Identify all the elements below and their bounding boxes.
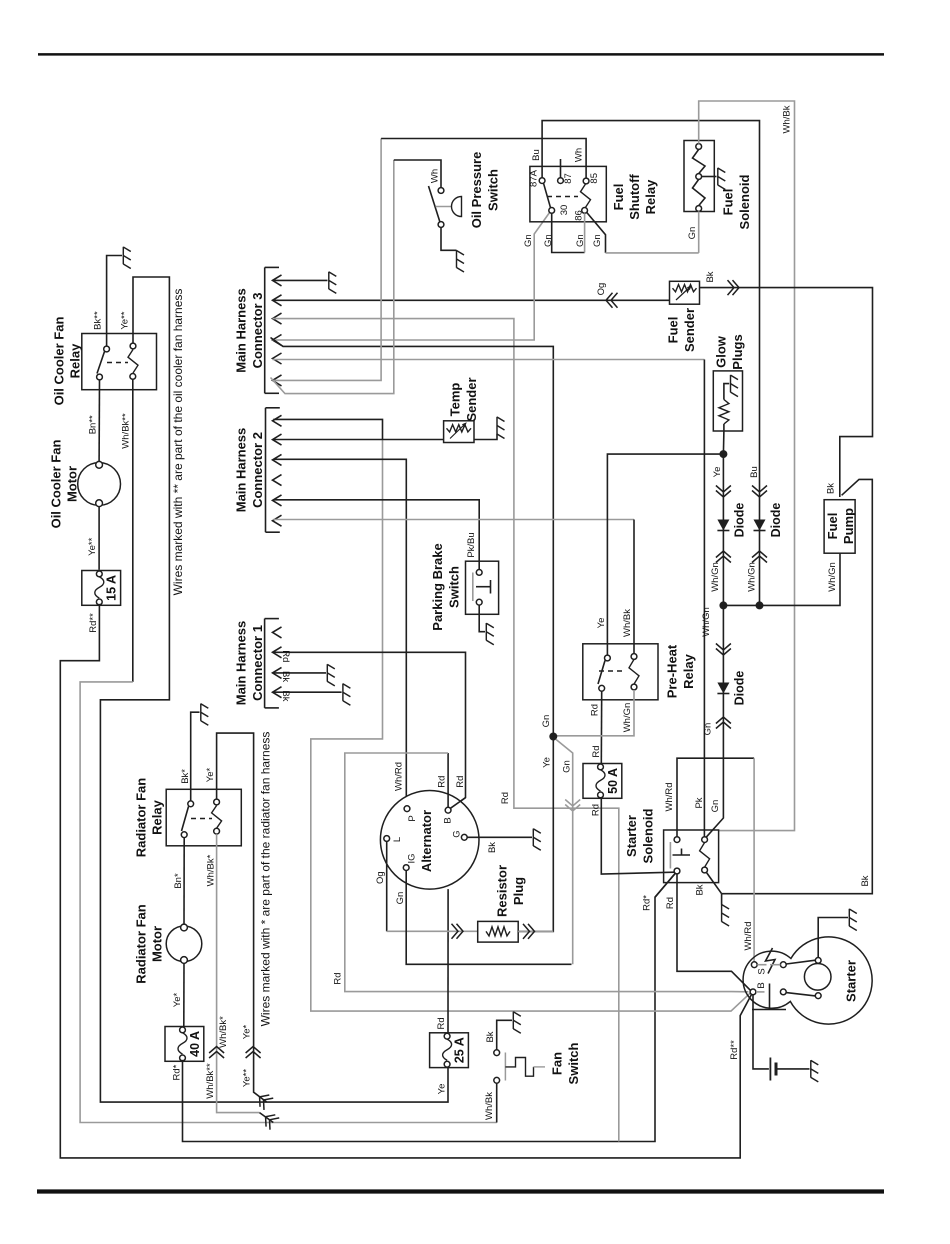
svg-text:Wires marked with ** are part: Wires marked with ** are part of the oil… bbox=[171, 289, 185, 596]
relay K2 pin Ye* bbox=[214, 799, 220, 805]
svg-text:Glow: Glow bbox=[714, 335, 729, 368]
svg-text:Gn: Gn bbox=[523, 234, 534, 247]
chevron Og bbox=[606, 293, 618, 308]
motor M2 bottom terminal bbox=[181, 957, 188, 964]
svg-text:Rd: Rd bbox=[665, 897, 676, 909]
svg-text:Rd: Rd bbox=[590, 804, 601, 816]
diode D2 bbox=[754, 520, 766, 531]
wire Rd** fuse to starter B bus bbox=[60, 604, 751, 1158]
chevron Bu chain low bbox=[752, 551, 767, 563]
wire battery to ground bbox=[778, 1068, 810, 1070]
svg-text:Wh/Gn: Wh/Gn bbox=[622, 703, 633, 733]
svg-text:Wh/Bk**: Wh/Bk** bbox=[205, 1063, 216, 1099]
svg-text:Rd: Rd bbox=[589, 704, 600, 716]
label Bk BR bbox=[694, 884, 705, 895]
relay K4 pin WhBk bbox=[631, 654, 637, 660]
wire J2-2 to temp sender bbox=[273, 439, 443, 441]
switch oil pressure bottom pin bbox=[438, 222, 444, 228]
relay K1 pin Ye** bbox=[130, 343, 136, 349]
svg-text:Wh: Wh bbox=[429, 169, 440, 183]
node junction glow bbox=[719, 450, 727, 458]
wire J1-2 Rd to alternator B bbox=[273, 652, 466, 808]
resistor plug element bbox=[486, 927, 510, 936]
svg-text:G: G bbox=[451, 830, 462, 837]
label Rd* bbox=[171, 1064, 182, 1080]
wire alt G Bk bbox=[467, 836, 532, 838]
wire Wh/Bk** relay to bus bbox=[80, 379, 497, 1122]
label Gn ss bbox=[710, 800, 721, 813]
label Gn D3 bbox=[702, 723, 713, 736]
ground parking brake bbox=[486, 623, 494, 645]
relay K2 Radiator Fan Relay box bbox=[166, 789, 241, 846]
wire Ye** motor to fuse bbox=[98, 507, 100, 570]
connector J3 title bbox=[234, 288, 265, 373]
svg-text:Relay: Relay bbox=[68, 343, 83, 378]
ground fuel solenoid bbox=[718, 168, 726, 190]
wire Bk** to ground bbox=[107, 256, 122, 347]
svg-text:Resistor: Resistor bbox=[495, 865, 510, 917]
svg-text:Plugs: Plugs bbox=[730, 334, 745, 369]
label Gn junction bbox=[541, 715, 552, 728]
solenoid pin bottom bbox=[696, 206, 702, 212]
wire Gn diagonal bbox=[556, 739, 573, 964]
svg-text:Ye**: Ye** bbox=[120, 311, 131, 329]
svg-text:Ye: Ye bbox=[712, 467, 723, 478]
wire Ye** long feed bbox=[100, 277, 448, 1102]
note radiator fan harness bbox=[259, 732, 273, 1027]
label P bbox=[407, 815, 418, 821]
starter contact 2 bbox=[780, 989, 786, 995]
ground glow plugs bbox=[731, 375, 739, 397]
label Bk right bbox=[860, 875, 871, 886]
svg-text:Gn: Gn bbox=[687, 227, 698, 240]
svg-text:Wh/Bk: Wh/Bk bbox=[622, 609, 633, 637]
motor M2 Radiator Fan Motor bbox=[166, 926, 202, 962]
wire SS WhRd to starter S bbox=[677, 758, 754, 962]
wire Rd* fuse to solenoid bus bbox=[183, 873, 676, 1141]
battery short plate bbox=[775, 1063, 778, 1076]
solenoid coil lower bbox=[693, 179, 706, 205]
svg-text:Wh/Rd: Wh/Rd bbox=[394, 762, 405, 791]
page top rule bbox=[38, 53, 884, 56]
svg-text:Fan: Fan bbox=[550, 1052, 565, 1075]
svg-text:Solenoid: Solenoid bbox=[641, 808, 656, 863]
resistor plug box bbox=[478, 921, 519, 942]
svg-text:Wh/Bk*: Wh/Bk* bbox=[218, 1016, 229, 1048]
label WhGn K4 bbox=[622, 703, 633, 733]
svg-text:15 A: 15 A bbox=[105, 575, 119, 601]
wire glow to junction bbox=[722, 431, 725, 454]
label IG bbox=[406, 853, 417, 863]
starter solenoid plunger bbox=[673, 849, 691, 856]
svg-text:Switch: Switch bbox=[447, 566, 462, 608]
svg-text:Ye*: Ye* bbox=[241, 1024, 252, 1039]
svg-text:Main Harness: Main Harness bbox=[234, 428, 249, 513]
svg-text:50 A: 50 A bbox=[606, 768, 620, 794]
label Rd* SS bbox=[641, 895, 652, 911]
relay K1 coil bbox=[128, 350, 138, 374]
starter bar B bbox=[752, 984, 786, 1010]
wire J2-5 PkBu to parking brake bbox=[273, 500, 479, 570]
connector J1 title bbox=[234, 621, 265, 706]
label Bk J1-4 bbox=[280, 690, 291, 701]
glow plugs element bbox=[719, 400, 729, 425]
label WhRd starter bbox=[743, 921, 754, 950]
chevron WhBk diag bbox=[261, 1111, 279, 1130]
chevron Ye splice bbox=[246, 1047, 261, 1059]
svg-text:Gn: Gn bbox=[702, 723, 713, 736]
label Og alt bbox=[375, 871, 386, 884]
svg-text:L: L bbox=[392, 837, 403, 842]
chevron Gn chain bbox=[716, 644, 731, 656]
svg-text:Ye: Ye bbox=[596, 618, 607, 629]
svg-text:Rd: Rd bbox=[280, 650, 291, 662]
svg-text:P: P bbox=[407, 815, 418, 821]
connector J1 pin4 bbox=[273, 687, 282, 698]
svg-text:Gn: Gn bbox=[710, 800, 721, 813]
label 86 bbox=[573, 210, 584, 221]
svg-text:Bn*: Bn* bbox=[173, 873, 184, 889]
svg-text:Diode: Diode bbox=[732, 671, 746, 706]
svg-text:Gn: Gn bbox=[541, 715, 552, 728]
connector J1 bracket bbox=[265, 619, 279, 708]
relay K4 dashed link bbox=[599, 670, 624, 672]
svg-text:Pk: Pk bbox=[694, 797, 705, 808]
wire solenoid bottom Gn bbox=[698, 211, 700, 253]
label Diode D2 bbox=[769, 503, 783, 538]
wire J2-1 cont to starter B bbox=[311, 440, 751, 1012]
svg-text:Bk: Bk bbox=[280, 671, 291, 682]
relay starter solenoid box bbox=[664, 830, 719, 883]
svg-text:Rd*: Rd* bbox=[171, 1064, 182, 1080]
svg-text:Radiator Fan: Radiator Fan bbox=[134, 904, 149, 984]
svg-text:Bu: Bu bbox=[531, 149, 542, 161]
svg-text:Rd: Rd bbox=[436, 776, 447, 788]
wire Bn* relay to motor bbox=[183, 838, 185, 925]
connector J3 pin6 double bbox=[273, 375, 282, 386]
starter pin S bbox=[751, 962, 757, 968]
starter motor top bbox=[815, 958, 821, 964]
wire 30 loop bbox=[552, 213, 585, 252]
label Ye** bbox=[120, 311, 131, 329]
alternator pin B bbox=[445, 807, 451, 813]
svg-text:Diode: Diode bbox=[732, 503, 746, 538]
svg-text:Starter: Starter bbox=[844, 960, 859, 1002]
wire J3-3 Rd bbox=[273, 319, 619, 1142]
starter motor circle bbox=[804, 964, 831, 991]
svg-text:Wh/Gn: Wh/Gn bbox=[701, 607, 712, 637]
label Ye* relay bbox=[205, 767, 216, 782]
switch oil pressure dome bbox=[436, 197, 462, 217]
label G bbox=[451, 830, 462, 837]
relay K2 pin Wh/Bk* bbox=[214, 828, 220, 834]
svg-text:Solenoid: Solenoid bbox=[737, 174, 752, 229]
chevron Bk sender bbox=[728, 280, 740, 295]
label Bk** bbox=[93, 311, 104, 330]
relay K2 pin Bn* bbox=[181, 832, 187, 838]
page bottom rule bbox=[37, 1189, 884, 1193]
label Wh/Bk** bbox=[120, 413, 131, 449]
wire alt B Rd loop gray bbox=[345, 753, 749, 992]
wire fuel sender Bk to pump bbox=[700, 288, 873, 497]
label Starter bbox=[844, 960, 859, 1002]
diode D1 bbox=[717, 520, 729, 531]
svg-text:Gn: Gn bbox=[592, 234, 603, 247]
connector J2 pin1 bbox=[273, 415, 282, 426]
svg-text:Wh/Bk: Wh/Bk bbox=[781, 105, 792, 133]
label Bn* bbox=[173, 873, 184, 889]
wire J3-6a Wh to relay85 bbox=[273, 139, 587, 381]
label Og bbox=[596, 283, 607, 296]
svg-text:Oil Cooler Fan: Oil Cooler Fan bbox=[49, 440, 64, 529]
wire J2-6 WhBk to preheat relay bbox=[273, 520, 634, 654]
relay K3 switch arm bbox=[544, 183, 551, 208]
ground oil cooler relay bbox=[123, 247, 131, 269]
ground J3-1 bbox=[329, 272, 337, 294]
ground temp sender bbox=[497, 417, 505, 439]
relay K3 Fuel Shutoff Relay box bbox=[530, 166, 606, 221]
fuse F2 40 A bbox=[165, 1027, 204, 1062]
note oil cooler fan harness bbox=[171, 289, 185, 596]
wire J1-3 Bk ground bbox=[273, 672, 327, 674]
wire Ye diode chain bbox=[722, 454, 724, 605]
label Bk pump top bbox=[826, 483, 837, 494]
label B bbox=[442, 817, 453, 823]
fuse F3 50 A bbox=[583, 764, 622, 799]
svg-text:Wh: Wh bbox=[574, 148, 585, 162]
relay K4 pin WhGn bbox=[631, 684, 637, 690]
svg-text:Wh/Gn: Wh/Gn bbox=[827, 562, 838, 592]
label Wh/Bk right bbox=[781, 105, 792, 133]
label Bk* bbox=[180, 769, 191, 784]
ground battery bbox=[811, 1060, 819, 1082]
wire resistor right bbox=[518, 930, 553, 932]
svg-text:Pk/Bu: Pk/Bu bbox=[466, 532, 477, 557]
ground starter solenoid Bk bbox=[722, 904, 730, 926]
relay K3 coil bbox=[581, 184, 591, 207]
starter motor bottom bbox=[815, 993, 821, 999]
svg-text:Bk*: Bk* bbox=[180, 769, 191, 784]
svg-text:Wh/Gn: Wh/Gn bbox=[746, 562, 757, 592]
sensor fuel sender arrow bbox=[676, 285, 692, 300]
svg-text:Bk: Bk bbox=[485, 1031, 496, 1042]
label Diode D3 bbox=[732, 671, 746, 706]
relay K3 pin 87 bbox=[558, 178, 564, 184]
label Rd J1-2 bbox=[280, 650, 291, 662]
label Ye* splice bbox=[241, 1024, 252, 1039]
relay K1 pin Bn** bbox=[97, 374, 103, 380]
svg-text:Sender: Sender bbox=[464, 377, 479, 421]
wire SS Rd star diag bbox=[655, 873, 675, 897]
label WhBk fan bbox=[484, 1092, 495, 1120]
ground radiator relay bbox=[201, 704, 209, 726]
label Ye chain bbox=[712, 467, 723, 478]
svg-text:Parking Brake: Parking Brake bbox=[430, 543, 445, 630]
svg-text:Main Harness: Main Harness bbox=[234, 288, 249, 373]
wire alt L Og bbox=[386, 841, 388, 931]
wire pbs to ground bbox=[479, 605, 485, 632]
switch parking brake plunger bbox=[476, 580, 491, 594]
wire 86 to solenoid bbox=[587, 213, 699, 253]
label Glow Plugs bbox=[714, 334, 746, 369]
label Rd B riser bbox=[436, 776, 447, 788]
svg-text:Gn: Gn bbox=[561, 760, 572, 773]
svg-text:Oil Cooler Fan: Oil Cooler Fan bbox=[52, 317, 67, 406]
svg-text:Relay: Relay bbox=[681, 653, 696, 688]
svg-text:IG: IG bbox=[406, 853, 417, 863]
label Pre-Heat Relay bbox=[665, 644, 697, 698]
svg-text:Fuel: Fuel bbox=[611, 184, 626, 211]
svg-text:Rd: Rd bbox=[500, 792, 511, 804]
label S bbox=[756, 968, 767, 974]
svg-text:Connector 1: Connector 1 bbox=[250, 625, 265, 701]
label Rd J3-3 bbox=[500, 792, 511, 804]
label 85 bbox=[589, 173, 600, 184]
solenoid ground stub bbox=[702, 176, 717, 178]
node junction D2 bbox=[756, 601, 764, 609]
fuse F1 15 A bbox=[82, 571, 121, 606]
connector J3 pin4 double bbox=[273, 335, 282, 346]
label Bk G bbox=[487, 842, 498, 853]
label Ye* fuse bbox=[172, 992, 183, 1007]
switch fan Bk pin bbox=[494, 1050, 500, 1056]
svg-text:Ye: Ye bbox=[436, 1084, 447, 1095]
label Starter Solenoid bbox=[624, 808, 656, 863]
starter arm S bbox=[757, 948, 780, 974]
label 87 bbox=[563, 173, 574, 184]
svg-text:Wh/Gn: Wh/Gn bbox=[710, 562, 721, 592]
svg-text:Rd: Rd bbox=[591, 745, 602, 757]
label Oil Cooler Fan Relay bbox=[52, 317, 83, 406]
ground oil pressure switch bbox=[457, 250, 465, 272]
starter solenoid coil bbox=[700, 843, 710, 868]
label Wh/Bk* bbox=[205, 854, 216, 886]
switch parking brake box bbox=[466, 561, 499, 614]
svg-text:Rd*: Rd* bbox=[641, 895, 652, 911]
svg-text:Fuel: Fuel bbox=[666, 317, 681, 344]
connector J2 pin4 bbox=[273, 475, 282, 486]
label Diode D1 bbox=[732, 503, 746, 538]
ground starter bbox=[849, 909, 857, 931]
svg-text:Plug: Plug bbox=[511, 877, 526, 905]
battery long plate bbox=[769, 1058, 771, 1081]
svg-text:Wh/Bk**: Wh/Bk** bbox=[120, 413, 131, 449]
svg-text:Sender: Sender bbox=[682, 308, 697, 352]
svg-text:Alternator: Alternator bbox=[419, 810, 434, 872]
starter link top bbox=[786, 960, 815, 964]
solenoid fuel box bbox=[684, 141, 714, 212]
wire 50A to SS BL bbox=[601, 797, 674, 874]
svg-text:Og: Og bbox=[596, 283, 607, 296]
svg-text:Wires marked with * are part o: Wires marked with * are part of the radi… bbox=[259, 732, 273, 1027]
connector J3 pin1 bbox=[273, 275, 282, 286]
label Fuel Sender bbox=[666, 308, 698, 352]
connector J3 bracket bbox=[265, 267, 279, 393]
alternator pin P bbox=[404, 806, 410, 812]
chevron Ye diag bbox=[255, 1091, 273, 1110]
starter pin B bbox=[750, 989, 756, 995]
wire temp sender ground bbox=[474, 434, 497, 440]
label Wh/Bk* above bbox=[218, 1016, 229, 1048]
solenoid pin top bbox=[696, 144, 702, 150]
node junction Gn bbox=[549, 733, 557, 741]
relay K3 dashed link bbox=[547, 196, 578, 198]
wire J3-5 to starter solenoid Pk bbox=[273, 360, 705, 837]
alternator circle bbox=[380, 791, 479, 890]
label WhGn pump bbox=[827, 562, 838, 592]
starter solenoid pin Bk bbox=[702, 867, 708, 873]
relay K3 pin 87A bbox=[539, 178, 545, 184]
connector J3 pin5 bbox=[273, 353, 282, 364]
label Rd** bbox=[88, 613, 99, 633]
starter solenoid pin WhRd bbox=[674, 837, 680, 843]
switch parking brake blade bbox=[472, 573, 474, 602]
label Fan Switch bbox=[550, 1042, 582, 1084]
label Wh/Bk phr bbox=[622, 609, 633, 637]
label Pk bbox=[694, 797, 705, 808]
relay K4 pin Rd bbox=[599, 685, 605, 691]
motor M1 Oil Cooler Fan Motor bbox=[78, 463, 121, 506]
label Fuel Pump bbox=[825, 508, 856, 544]
svg-text:Rd: Rd bbox=[455, 776, 466, 788]
starter link bottom bbox=[786, 993, 815, 996]
svg-text:87A: 87A bbox=[528, 169, 539, 187]
label WhGn D1 bbox=[710, 562, 721, 592]
fuse F4 25 A bbox=[430, 1033, 469, 1068]
svg-text:Wh/Rd: Wh/Rd bbox=[664, 782, 675, 811]
svg-text:Bk: Bk bbox=[860, 875, 871, 886]
alternator pin L bbox=[384, 836, 390, 842]
label Gn 30 bbox=[523, 234, 534, 247]
connector J3 pin3 bbox=[273, 313, 282, 324]
svg-text:85: 85 bbox=[589, 173, 600, 184]
wire J3-6b Wh to oil pressure switch bbox=[271, 160, 442, 394]
connector J2 bracket bbox=[266, 408, 280, 532]
label Rd alt B bbox=[455, 776, 466, 788]
svg-text:Ye**: Ye** bbox=[87, 537, 98, 555]
wire Gn diode chain bbox=[706, 605, 723, 837]
label Rd below 50A bbox=[590, 804, 601, 816]
relay K3 pin 85 bbox=[583, 178, 589, 184]
label Wh/Rd alt bbox=[394, 762, 405, 791]
chevron resistor right bbox=[523, 924, 535, 939]
switch parking brake top pin bbox=[476, 570, 482, 576]
ground J1-4 bbox=[343, 684, 351, 706]
connector J2 pin3 bbox=[273, 454, 282, 465]
connector J1 pin3 bbox=[273, 667, 282, 678]
starter body outline bbox=[743, 937, 872, 1024]
svg-text:B: B bbox=[442, 817, 453, 823]
wire starter B to battery bbox=[753, 995, 769, 1069]
label Bk fan bbox=[485, 1031, 496, 1042]
svg-text:Main Harness: Main Harness bbox=[234, 621, 249, 706]
label Rd 25A bbox=[436, 1017, 447, 1029]
sensor temp sender arrow bbox=[450, 422, 467, 438]
relay K4 Pre-Heat Relay box bbox=[583, 644, 658, 700]
chevron resistor left bbox=[452, 924, 464, 939]
label Gn diag bbox=[561, 760, 572, 773]
chevron Ye chain bbox=[716, 486, 731, 498]
starter solenoid contact bar bbox=[669, 842, 671, 869]
label Parking Brake Switch bbox=[430, 543, 462, 630]
chevron Ye chain low bbox=[716, 551, 731, 563]
svg-text:Motor: Motor bbox=[150, 926, 165, 962]
svg-text:Fuel: Fuel bbox=[721, 189, 736, 216]
svg-text:25 A: 25 A bbox=[452, 1037, 466, 1063]
svg-text:Rd: Rd bbox=[436, 1017, 447, 1029]
sensor fuel sender box bbox=[670, 281, 700, 304]
svg-text:Oil Pressure: Oil Pressure bbox=[469, 152, 484, 229]
